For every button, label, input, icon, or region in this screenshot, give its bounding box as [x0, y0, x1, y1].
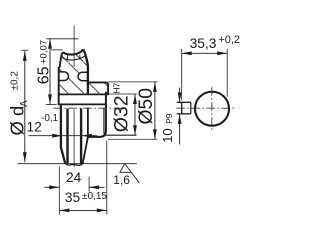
svg-text:+0,07: +0,07: [39, 40, 50, 64]
svg-text:±0,15: ±0,15: [82, 191, 107, 202]
svg-text:P9: P9: [164, 113, 174, 124]
svg-text:Ø d: Ø d: [6, 106, 27, 136]
svg-text:±0,2: ±0,2: [10, 71, 21, 91]
svg-text:Ø32: Ø32: [111, 95, 133, 132]
svg-text:H7: H7: [112, 82, 122, 93]
svg-text:10: 10: [160, 128, 175, 143]
svg-text:A: A: [19, 100, 30, 107]
svg-text:35,3: 35,3: [190, 36, 217, 51]
svg-text:65: 65: [35, 66, 52, 84]
svg-text:+0,2: +0,2: [218, 34, 240, 46]
svg-text:12: 12: [27, 119, 42, 134]
svg-text:1,6: 1,6: [113, 173, 130, 187]
svg-text:35: 35: [65, 190, 81, 205]
svg-text:24: 24: [66, 170, 82, 185]
svg-text:-0,1: -0,1: [41, 113, 59, 124]
svg-text:Ø50: Ø50: [136, 88, 157, 124]
